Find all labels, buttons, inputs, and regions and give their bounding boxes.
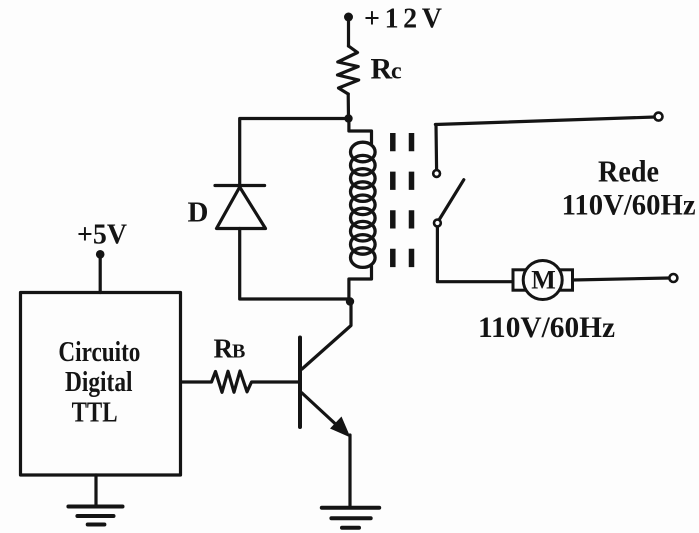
svg-text:TTL: TTL xyxy=(72,398,118,429)
svg-text:Circuito: Circuito xyxy=(58,337,140,368)
svg-text:R: R xyxy=(214,334,234,364)
svg-text:Rede: Rede xyxy=(598,154,659,189)
svg-text:M: M xyxy=(531,266,556,295)
svg-text:+12V: +12V xyxy=(364,4,442,35)
svg-text:110V/60Hz: 110V/60Hz xyxy=(478,311,615,344)
svg-text:Digital: Digital xyxy=(65,367,133,398)
svg-text:c: c xyxy=(391,59,402,85)
svg-text:110V/60Hz: 110V/60Hz xyxy=(562,189,696,222)
svg-text:R: R xyxy=(371,53,393,86)
svg-text:D: D xyxy=(188,197,209,229)
svg-text:+5V: +5V xyxy=(77,219,127,251)
svg-text:B: B xyxy=(232,341,245,363)
